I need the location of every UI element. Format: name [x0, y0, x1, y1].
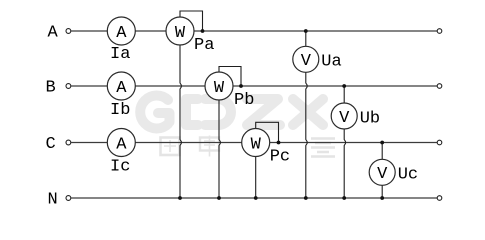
- node C (left terminal): [46, 135, 71, 154]
- wire N (neutral horizontal): [71, 197, 437, 199]
- wire Pa voltage-coil loop (top bracket): [180, 11, 203, 31]
- wattmeter W (Pa): [166, 17, 194, 45]
- wire B (phase B horizontal): [71, 85, 437, 87]
- wire Pb voltage-coil loop (top bracket): [219, 67, 241, 87]
- svg-text:N: N: [48, 191, 58, 210]
- junction Pa on wire N: [178, 196, 182, 200]
- svg-text:Pa: Pa: [194, 36, 214, 55]
- svg-text:W: W: [175, 24, 186, 43]
- ammeter A (phase A): [107, 17, 135, 45]
- wattmeter W (Pb): [205, 72, 233, 100]
- svg-text:A: A: [116, 24, 127, 43]
- svg-text:Ib: Ib: [110, 101, 130, 120]
- terminal N-out (right): [437, 196, 442, 201]
- junction Uc on wire C: [380, 141, 384, 145]
- svg-text:B: B: [46, 79, 56, 98]
- terminal B-out (right): [437, 84, 442, 89]
- watermark (background logo): [140, 96, 335, 157]
- svg-text:V: V: [339, 109, 350, 128]
- svg-text:W: W: [214, 79, 225, 98]
- voltmeter V (Uc): [369, 159, 395, 185]
- wire voltmeter Uc from C to N: [381, 143, 383, 199]
- svg-text:A: A: [48, 24, 59, 43]
- svg-text:Ic: Ic: [110, 158, 130, 177]
- svg-text:W: W: [251, 135, 262, 154]
- terminal A-out (right): [437, 29, 442, 34]
- junction Pb on wire N: [217, 196, 221, 200]
- junction Pc on wire N: [254, 196, 258, 200]
- wire Pc voltage coil to N: [255, 156, 257, 198]
- wire voltmeter Ua from A to N: [306, 31, 307, 198]
- wire voltmeter Ub from B to N: [344, 86, 345, 198]
- ammeter A (phase C): [107, 129, 135, 157]
- junction Ub on wire N: [342, 196, 346, 200]
- svg-text:Uc: Uc: [398, 166, 418, 185]
- svg-text:V: V: [301, 52, 312, 71]
- svg-text:V: V: [377, 165, 388, 184]
- svg-text:Pc: Pc: [270, 148, 290, 167]
- junction Pc tap on wire C: [277, 141, 281, 145]
- ammeter A (phase B): [107, 72, 135, 100]
- junction Pb tap on wire B: [239, 84, 243, 88]
- wattmeter W (Pc): [242, 129, 270, 157]
- wire Pc voltage-coil loop (top bracket): [256, 122, 279, 142]
- wire Pa voltage coil to N: [180, 45, 181, 198]
- svg-text:Ub: Ub: [360, 109, 380, 128]
- voltmeter V (Ub): [331, 103, 357, 129]
- node A (left terminal): [48, 24, 71, 43]
- wire A (phase A horizontal): [71, 30, 437, 32]
- junction Uc on wire N: [380, 196, 384, 200]
- junction Ub on wire B: [342, 84, 346, 88]
- svg-text:A: A: [116, 79, 127, 98]
- node N (left terminal): [48, 191, 71, 210]
- wire Pb voltage coil to N: [219, 100, 220, 198]
- node B (left terminal): [46, 79, 71, 98]
- terminal C-out (right): [437, 140, 442, 145]
- voltmeter V (Ua): [293, 46, 319, 72]
- svg-text:Pb: Pb: [234, 91, 254, 110]
- svg-text:Ia: Ia: [110, 45, 130, 64]
- svg-text:Ua: Ua: [321, 53, 341, 72]
- svg-text:C: C: [46, 135, 56, 154]
- junction Pa tap on wire A: [201, 29, 205, 33]
- wire C (phase C horizontal): [71, 142, 437, 144]
- junction Ua on wire N: [304, 196, 308, 200]
- junction Ua on wire A: [304, 29, 308, 33]
- svg-text:A: A: [116, 135, 127, 154]
